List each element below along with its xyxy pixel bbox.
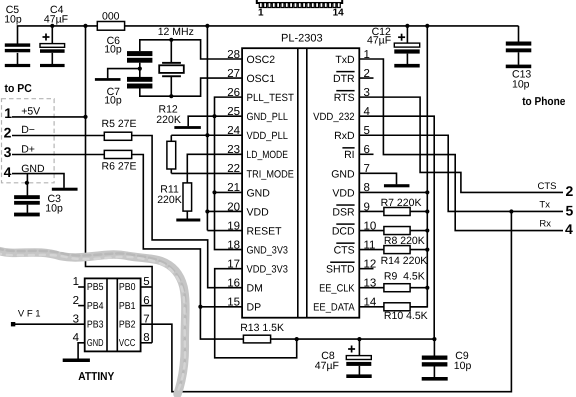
label R7 <box>381 197 422 209</box>
svg-text:VDD_3V3: VDD_3V3 <box>247 264 289 276</box>
U2 pin labels <box>87 282 136 349</box>
svg-text:10p: 10p <box>4 13 22 25</box>
svg-text:+5V: +5V <box>21 106 40 118</box>
svg-text:DSR: DSR <box>332 206 355 218</box>
svg-text:10p: 10p <box>512 78 530 90</box>
svg-text:27: 27 <box>227 68 240 80</box>
wire crystal cap midpoint to ground <box>108 69 140 79</box>
svg-text:CTS: CTS <box>538 181 557 192</box>
label C9 <box>454 350 472 372</box>
node C8 junction <box>357 337 361 341</box>
label R14 <box>381 255 428 267</box>
label R8 <box>384 235 425 247</box>
wire GND pin 21 <box>215 191 243 193</box>
resistor R11 220K <box>183 183 192 219</box>
svg-text:2: 2 <box>566 183 574 199</box>
pin 5 Tx numeral <box>566 203 574 219</box>
svg-text:PB3: PB3 <box>87 319 104 330</box>
label 12 MHz <box>158 26 194 38</box>
wire SHTD pin 12 stub <box>359 268 373 270</box>
node VDD pin 8 junction <box>425 190 429 194</box>
svg-text:GND_PLL: GND_PLL <box>247 111 289 123</box>
wire DTR pin 2 stub <box>359 77 373 79</box>
capacitor C3 <box>14 195 40 213</box>
label C6 <box>104 35 122 56</box>
svg-text:RTS: RTS <box>334 92 355 104</box>
label C5 <box>4 4 22 25</box>
node VDD rail at pin 20 <box>205 209 209 213</box>
node DP junction <box>198 305 202 309</box>
label C7 <box>104 86 122 106</box>
wire crystal loop top / OSC2 pin 28 <box>140 40 242 59</box>
node R13/pin17 junction <box>295 337 299 341</box>
wire RTS pin 3 to CTS output <box>359 97 563 192</box>
wire R13 right to C8 C9 VDD232 <box>271 338 435 340</box>
wire +5V right rail <box>410 26 427 307</box>
svg-text:5: 5 <box>566 203 574 219</box>
wire D+ from R6 to DP pin 15 <box>132 155 242 307</box>
capacitor C6 <box>127 51 152 77</box>
pin 4 GND <box>4 163 64 188</box>
resistor R7 <box>384 207 427 215</box>
pin 3 D+ <box>4 143 105 160</box>
resistor R12 220K <box>167 135 176 173</box>
node R14 junction <box>425 248 429 252</box>
op-amp U1 PL-2303 body <box>242 48 359 318</box>
svg-text:47µF: 47µF <box>44 13 68 25</box>
svg-text:PLL_TEST: PLL_TEST <box>247 92 295 104</box>
capacitor C7 <box>127 77 152 89</box>
svg-text:R7 220K: R7 220K <box>381 197 422 209</box>
label R5 <box>102 118 137 130</box>
wire ATtiny pin 4 GND <box>78 343 85 359</box>
svg-text:TRI_MODE: TRI_MODE <box>247 168 294 180</box>
node Tx junction <box>509 209 513 213</box>
svg-text:28: 28 <box>227 49 240 61</box>
capacitor C12 electrolytic <box>394 26 419 64</box>
svg-text:RxD: RxD <box>334 130 355 142</box>
capacitor C5 <box>5 43 30 64</box>
wire +5V vertical to PC connector and ATtiny feed <box>86 26 153 343</box>
wire pin 11 to R14 <box>359 249 384 251</box>
svg-text:GND: GND <box>247 187 271 199</box>
node R8 junction <box>425 228 429 232</box>
U1 right pin labels <box>313 54 355 314</box>
svg-text:10p: 10p <box>104 44 122 56</box>
svg-text:VDD_PLL: VDD_PLL <box>247 130 289 142</box>
svg-text:220K: 220K <box>157 194 182 206</box>
wire TxD pin 1 to Rx output <box>359 59 563 231</box>
svg-text:18: 18 <box>227 239 240 251</box>
label PL-2303 <box>281 33 323 45</box>
svg-text:24: 24 <box>227 125 240 137</box>
ground for PC GND pin <box>52 188 78 191</box>
ground for C8 <box>346 374 371 378</box>
node C6/C7 junction <box>138 67 142 71</box>
svg-text:GND: GND <box>21 163 45 175</box>
wire VDD_PLL pin 24 <box>171 134 242 136</box>
svg-text:Rx: Rx <box>539 219 551 230</box>
svg-text:D−: D− <box>21 124 35 136</box>
resistor R14 <box>384 246 427 254</box>
resistor R10 <box>384 303 427 311</box>
capacitor C4 electrolytic <box>40 26 65 64</box>
svg-text:GND: GND <box>331 168 355 180</box>
node VDD rail at pin 24 <box>205 133 209 137</box>
svg-text:VCC: VCC <box>119 338 136 349</box>
node junction dots on top rail <box>50 24 429 28</box>
wire RI pin 6 stub <box>359 153 373 155</box>
svg-text:47µF: 47µF <box>315 360 339 372</box>
svg-text:4: 4 <box>565 221 573 237</box>
svg-text:000: 000 <box>102 10 120 22</box>
wire VDD pin 8 <box>359 191 427 193</box>
svg-text:1: 1 <box>4 105 12 121</box>
label C13 <box>512 69 531 91</box>
gray marker stroke <box>0 248 186 394</box>
wire ATtiny pin 6 stub <box>141 305 153 307</box>
svg-text:23: 23 <box>227 144 240 156</box>
svg-text:TxD: TxD <box>335 54 355 66</box>
node R9 junction <box>425 286 429 290</box>
resistor R8 <box>384 227 427 235</box>
svg-text:CTS: CTS <box>334 245 355 257</box>
U2 pin numbers <box>73 276 150 344</box>
pin 2 CTS numeral <box>566 183 574 199</box>
svg-text:47µF: 47µF <box>367 35 391 47</box>
svg-text:PB5: PB5 <box>87 282 104 293</box>
node GND rail at pin 25 <box>212 114 216 118</box>
svg-text:D+: D+ <box>21 143 35 155</box>
label V F 1 <box>18 309 41 320</box>
svg-text:OSC2: OSC2 <box>247 54 276 66</box>
wire GND rail pins 26-25-21-18 <box>215 97 243 249</box>
svg-text:VDD: VDD <box>332 187 355 199</box>
op-amp U2 ATtiny body <box>85 278 141 351</box>
wire GND_PLL pin 25 <box>188 116 242 126</box>
svg-text:RI: RI <box>344 149 355 161</box>
svg-text:RESET: RESET <box>247 225 283 237</box>
svg-text:16: 16 <box>227 278 240 290</box>
label C4 <box>44 4 68 25</box>
U1 right pin numbers 1-14 <box>364 49 377 309</box>
svg-text:4: 4 <box>4 164 12 180</box>
label R12 <box>156 104 181 126</box>
svg-text:GND_3V3: GND_3V3 <box>247 245 289 257</box>
wire GND pin 7 <box>359 173 396 184</box>
label CTS <box>538 181 557 192</box>
svg-text:10p: 10p <box>104 95 122 107</box>
svg-text:VDD: VDD <box>247 206 270 218</box>
svg-text:26: 26 <box>227 87 240 99</box>
svg-text:to Phone: to Phone <box>522 96 565 108</box>
svg-text:7: 7 <box>143 313 149 325</box>
wire DP to R13 <box>200 307 243 339</box>
wire GND to C3 <box>26 174 28 196</box>
label C8 <box>315 350 339 372</box>
node on C3 wire <box>25 181 29 185</box>
resistor 000 (zero ohm) <box>97 22 124 31</box>
svg-text:22: 22 <box>227 163 240 175</box>
label R6 <box>102 160 137 172</box>
svg-text:1: 1 <box>258 8 264 19</box>
wire VDD pin 20 <box>207 210 242 212</box>
svg-text:2: 2 <box>73 295 79 307</box>
svg-text:LD_MODE: LD_MODE <box>247 149 288 161</box>
svg-text:R10 4.5K: R10 4.5K <box>384 310 428 322</box>
svg-text:PB4: PB4 <box>87 301 104 312</box>
svg-text:20: 20 <box>227 201 240 213</box>
label 000 <box>102 10 120 22</box>
wire ATtiny pin 5 stub <box>141 286 153 288</box>
ground for C6/C7 <box>95 78 121 81</box>
wire crystal loop bottom / OSC1 pin 27 <box>140 78 242 96</box>
U1 left pin labels <box>247 54 295 314</box>
wire LD_MODE pin 23 <box>187 154 242 183</box>
wire ATtiny pin 1 stub <box>78 286 85 288</box>
wire pin 9 to R7 <box>359 210 384 212</box>
svg-text:25: 25 <box>227 106 240 118</box>
label R9 <box>384 271 425 283</box>
node R7 junction <box>425 209 429 213</box>
svg-text:ATTINY: ATTINY <box>78 371 114 383</box>
svg-text:1: 1 <box>73 276 79 288</box>
wire Tx to ATtiny PB2 bottom run <box>141 211 512 391</box>
svg-text:R13 1.5K: R13 1.5K <box>240 322 284 334</box>
wire TRI_MODE pin 22 <box>171 172 242 174</box>
svg-text:EE_CLK: EE_CLK <box>319 283 355 295</box>
node C9 junction <box>432 337 436 341</box>
node +5V pin1 junction <box>83 115 87 119</box>
svg-text:to PC: to PC <box>5 83 32 95</box>
ground for C3 <box>14 213 40 217</box>
svg-text:PB2: PB2 <box>119 319 136 330</box>
svg-text:3: 3 <box>4 144 12 160</box>
svg-text:DTR: DTR <box>333 73 355 85</box>
node crystal bottom junction <box>169 94 173 98</box>
capacitor C13 <box>506 26 532 65</box>
label R13 <box>240 322 284 334</box>
svg-text:14: 14 <box>333 8 345 19</box>
svg-text:R5 27E: R5 27E <box>102 118 137 130</box>
wire pin 14 to R10 <box>359 306 384 308</box>
crystal X1 12MHz <box>159 40 184 96</box>
wire pin 13 to R9 <box>359 287 384 289</box>
label Tx <box>539 200 550 211</box>
ground for C4 <box>40 64 65 67</box>
svg-text:R14 220K: R14 220K <box>381 255 428 267</box>
node GND rail at pin 21 <box>212 190 216 194</box>
label J1 pin 1 <box>258 8 264 19</box>
label ATTINY <box>78 371 114 383</box>
svg-text:PB0: PB0 <box>119 282 136 293</box>
capacitor C9 <box>422 339 448 377</box>
label R11 <box>157 184 182 206</box>
label to Phone <box>522 96 565 108</box>
svg-text:10p: 10p <box>454 360 472 372</box>
svg-text:DCD: DCD <box>332 225 355 237</box>
svg-text:10p: 10p <box>45 202 63 214</box>
svg-text:PB1: PB1 <box>119 301 136 312</box>
label C3 <box>45 193 63 214</box>
ground for C13 <box>506 65 532 69</box>
wire V F 1 to ATtiny pin 3 <box>11 322 85 326</box>
wire D- from R5 to DM pin 16 <box>132 136 242 288</box>
svg-text:DM: DM <box>247 283 263 295</box>
pin 2 D- <box>4 124 105 141</box>
ground for pin 7 <box>384 184 410 187</box>
svg-text:220K: 220K <box>156 114 181 126</box>
ground for C5 <box>5 64 30 67</box>
wire ATtiny pin 8 stub <box>141 342 153 344</box>
svg-text:21: 21 <box>227 182 240 194</box>
wire pin 10 to R8 <box>359 230 384 232</box>
ground for ATtiny <box>63 359 90 363</box>
svg-text:SHTD: SHTD <box>326 264 355 276</box>
svg-text:EE_DATA: EE_DATA <box>313 302 354 314</box>
svg-text:OSC1: OSC1 <box>247 73 276 85</box>
wire VDD rail to RESET pin 19 <box>207 26 242 231</box>
label R10 <box>384 310 428 322</box>
ground for C9 <box>422 377 448 381</box>
capacitor C8 electrolytic <box>346 339 371 375</box>
label J1 pin 14 <box>333 8 345 19</box>
svg-text:19: 19 <box>227 220 240 232</box>
pin 1 +5V <box>4 105 85 121</box>
resistor R6 27E <box>104 150 131 158</box>
wire ATtiny pin 2 stub <box>78 305 85 307</box>
resistor R9 <box>384 284 427 292</box>
connector J1 DIP header top <box>257 0 342 8</box>
svg-text:DP: DP <box>247 302 262 314</box>
svg-text:R6 27E: R6 27E <box>102 160 137 172</box>
svg-text:17: 17 <box>227 258 240 270</box>
ground for C12 <box>394 64 419 68</box>
svg-text:GND: GND <box>87 338 104 349</box>
wire +5V top rail <box>18 26 519 44</box>
svg-text:VDD_232: VDD_232 <box>313 111 355 123</box>
ground for R11 <box>176 219 200 222</box>
svg-text:V F 1: V F 1 <box>18 309 41 320</box>
svg-text:R9 4.5K: R9 4.5K <box>384 271 425 283</box>
connector to PC dashed outline <box>2 99 55 183</box>
resistor R13 1.5K <box>243 335 270 343</box>
wire VDD_3V3 pin 17 to R13 right <box>215 269 297 358</box>
svg-text:Tx: Tx <box>539 200 550 211</box>
pin 4 Rx numeral <box>565 221 573 237</box>
ground for GND_PLL <box>174 126 201 129</box>
wire VDD_232 pin 4 <box>359 116 434 339</box>
U1 left pin numbers 28-15 <box>227 49 240 309</box>
resistor R5 27E <box>104 132 131 140</box>
label Rx <box>539 219 551 230</box>
label C12 <box>367 26 391 47</box>
label to PC <box>5 83 32 95</box>
wire RxD pin 5 to Tx output <box>359 135 563 211</box>
svg-text:PL-2303: PL-2303 <box>281 33 323 45</box>
svg-text:15: 15 <box>227 297 240 309</box>
svg-text:2: 2 <box>4 125 12 141</box>
node crystal top junction <box>169 38 173 42</box>
svg-text:12 MHz: 12 MHz <box>158 26 194 38</box>
